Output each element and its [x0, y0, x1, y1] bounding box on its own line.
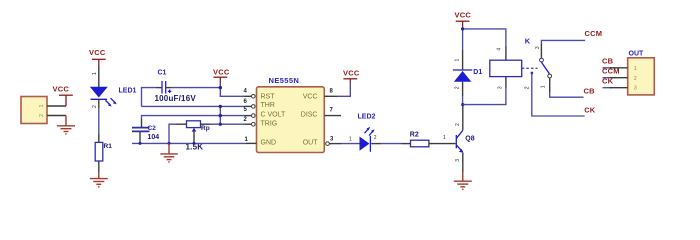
svg-text:4: 4	[244, 89, 248, 95]
LED2 emission arrows	[365, 127, 375, 136]
svg-text:VCC: VCC	[343, 68, 360, 77]
wire Q8 collector up to junction	[462, 105, 464, 131]
svg-text:D1: D1	[473, 69, 482, 76]
ground (middle, under pot)	[160, 143, 178, 162]
svg-text:1: 1	[349, 136, 352, 142]
wire pin8 to VCC symbol	[337, 83, 350, 97]
pin bubble THR	[252, 105, 256, 109]
potentiometer Rp	[187, 121, 201, 144]
junction (jumper on THR line)	[219, 105, 222, 108]
svg-text:5: 5	[244, 107, 248, 113]
ground (under R1)	[90, 172, 108, 187]
pin stub THR	[245, 105, 252, 107]
connector OUT	[628, 51, 655, 95]
svg-text:OUT: OUT	[303, 140, 319, 147]
svg-text:4: 4	[497, 48, 503, 51]
wire bottom contact to CB	[550, 92, 584, 97]
svg-text:DISC: DISC	[301, 112, 318, 119]
svg-text:1: 1	[39, 104, 45, 107]
svg-text:CB: CB	[602, 57, 614, 66]
svg-text:RST: RST	[261, 94, 276, 101]
svg-text:CK: CK	[584, 106, 596, 115]
wire C2 bottom lead	[139, 131, 141, 143]
svg-text:VCC: VCC	[455, 11, 472, 20]
capacitor C1 (polarized, in series on top rail)	[162, 81, 166, 94]
svg-text:1: 1	[443, 135, 446, 141]
capacitor C2	[132, 128, 150, 132]
junction (VCC stem on top rail)	[219, 86, 222, 89]
wire jumper THR to TRIG	[219, 106, 221, 124]
wire OUT pin3 (net CK)	[603, 87, 628, 89]
svg-text:NE555N: NE555N	[269, 76, 300, 85]
wire TRIG line left segment (to pot)	[169, 124, 176, 144]
svg-text:C VOLT: C VOLT	[261, 112, 286, 119]
svg-text:3: 3	[634, 86, 637, 92]
wire R2 to Q8 base	[429, 143, 456, 145]
wire D1 anode down to collector junction	[462, 82, 464, 96]
svg-text:GND: GND	[261, 140, 277, 147]
pin stub TRIG	[245, 123, 252, 125]
wire CVOLT line	[142, 116, 245, 119]
svg-text:2: 2	[634, 76, 637, 82]
junction (jumper on CVOLT line)	[219, 114, 222, 117]
wire J1 pin2 to ground	[47, 115, 66, 117]
power VCC (555 pin8)	[343, 68, 360, 82]
svg-text:TRIG: TRIG	[261, 120, 278, 127]
wire 555 VCC pin8	[324, 95, 337, 97]
wire TRIG line right segment	[201, 123, 211, 125]
junction (jumper on TRIG line)	[219, 123, 222, 126]
svg-text:1: 1	[245, 137, 249, 143]
power VCC (LED1 branch)	[89, 48, 106, 66]
wire Q8 emitter down	[462, 153, 464, 172]
power VCC (mid, feeds RST)	[213, 67, 230, 83]
junction (VCC branch)	[461, 27, 464, 30]
svg-text:100uF/16V: 100uF/16V	[155, 94, 197, 103]
wire VCC to LED1 anode	[98, 66, 100, 87]
connector J1 (left input header)	[21, 97, 47, 124]
svg-text:VCC: VCC	[89, 48, 106, 57]
pin bubble TRIG	[252, 122, 256, 126]
svg-text:CB: CB	[584, 87, 596, 96]
svg-text:LED1: LED1	[119, 88, 137, 95]
wire GND line to 555 pin1	[132, 142, 246, 144]
pin stub CVOLT	[245, 115, 252, 117]
svg-text:1: 1	[541, 85, 547, 88]
relay K common post	[531, 72, 585, 116]
wire VCC branch to relay coil top	[463, 29, 506, 46]
power VCC (left connector)	[53, 85, 73, 107]
relay K coil	[490, 60, 522, 76]
wire top rail right (C1 right plate to VCC junction)	[166, 87, 172, 89]
svg-text:OUT: OUT	[629, 51, 645, 58]
wire R1 to ground	[98, 161, 100, 172]
svg-text:2: 2	[92, 105, 98, 108]
svg-text:2: 2	[525, 86, 531, 89]
pin stub GND	[246, 142, 257, 144]
wire OUT pin3 to LED2	[329, 143, 341, 145]
LED D LED2	[360, 136, 371, 152]
svg-text:1: 1	[455, 59, 461, 62]
relay K bottom contact	[548, 74, 552, 92]
svg-text:2: 2	[374, 135, 377, 141]
svg-text:3: 3	[455, 159, 461, 162]
svg-text:1: 1	[92, 72, 98, 75]
svg-text:3: 3	[498, 86, 504, 89]
svg-text:CCM: CCM	[602, 67, 620, 76]
svg-text:Q8: Q8	[465, 135, 474, 142]
svg-text:R2: R2	[410, 132, 419, 139]
LED1 emission arrows	[106, 98, 117, 107]
wire VCC down to D1	[462, 26, 464, 50]
diode D1	[453, 70, 472, 82]
plus sign of C1	[168, 90, 171, 93]
relay K blade	[541, 62, 549, 74]
junction (C2 lead on GND line)	[139, 142, 142, 145]
wire top contact to CCM	[541, 40, 585, 44]
svg-text:6: 6	[244, 99, 248, 105]
transistor Q8 (NPN)	[456, 130, 463, 153]
wire VCC stem down to RST corner	[220, 83, 244, 96]
wire OUT pin2 (net CCM)	[603, 77, 628, 79]
junction (pot wiper on GND line)	[193, 142, 196, 145]
svg-text:THR: THR	[261, 102, 275, 109]
svg-text:104: 104	[148, 134, 160, 141]
pin stub RST	[245, 95, 252, 97]
svg-text:CCM: CCM	[585, 29, 603, 38]
pin bubble OUT	[326, 142, 330, 146]
svg-text:LED2: LED2	[358, 113, 376, 120]
resistor R2	[410, 132, 429, 147]
svg-text:1: 1	[634, 66, 637, 72]
svg-text:8: 8	[330, 88, 334, 94]
resistor R1	[95, 142, 112, 161]
svg-text:C1: C1	[158, 70, 167, 77]
wire top rail left (C1 left plate to corner)	[142, 88, 157, 107]
svg-text:VCC: VCC	[303, 94, 318, 101]
svg-text:2: 2	[455, 86, 461, 89]
pin bubble CVOLT	[252, 114, 256, 118]
wire OUT pin1 (net CB)	[603, 67, 628, 69]
junction (coil bottom branch)	[461, 103, 464, 106]
LED D LED1	[90, 87, 108, 100]
wire coil bottom branch	[463, 88, 506, 105]
svg-text:R1: R1	[104, 143, 113, 150]
svg-text:2: 2	[244, 117, 248, 123]
svg-text:3: 3	[535, 46, 541, 49]
wire J1 pin1 to VCC	[47, 105, 66, 107]
relay K dashed link	[522, 67, 538, 69]
power VCC (top right)	[455, 11, 472, 26]
wire THR line	[142, 105, 245, 107]
svg-text:K: K	[525, 36, 531, 45]
svg-text:7: 7	[330, 107, 334, 113]
svg-text:VCC: VCC	[53, 85, 70, 94]
svg-text:VCC: VCC	[213, 67, 230, 76]
svg-text:Rp: Rp	[201, 125, 210, 132]
junction (ground drop on GND line)	[168, 142, 171, 145]
wire DISC stub pin7	[324, 115, 341, 117]
pin bubble RST	[252, 95, 256, 99]
ground (left connector)	[57, 116, 75, 135]
svg-text:2: 2	[39, 114, 45, 117]
ground (under Q8)	[454, 172, 472, 189]
svg-text:3: 3	[330, 136, 334, 142]
wire LED1 cathode to R1	[98, 108, 100, 134]
op-amp U1 NE555N timer	[257, 76, 325, 152]
wire LED2 to R2	[381, 143, 402, 145]
svg-text:2: 2	[455, 123, 461, 126]
svg-text:CK: CK	[602, 76, 614, 85]
relay K top contact	[540, 44, 544, 62]
